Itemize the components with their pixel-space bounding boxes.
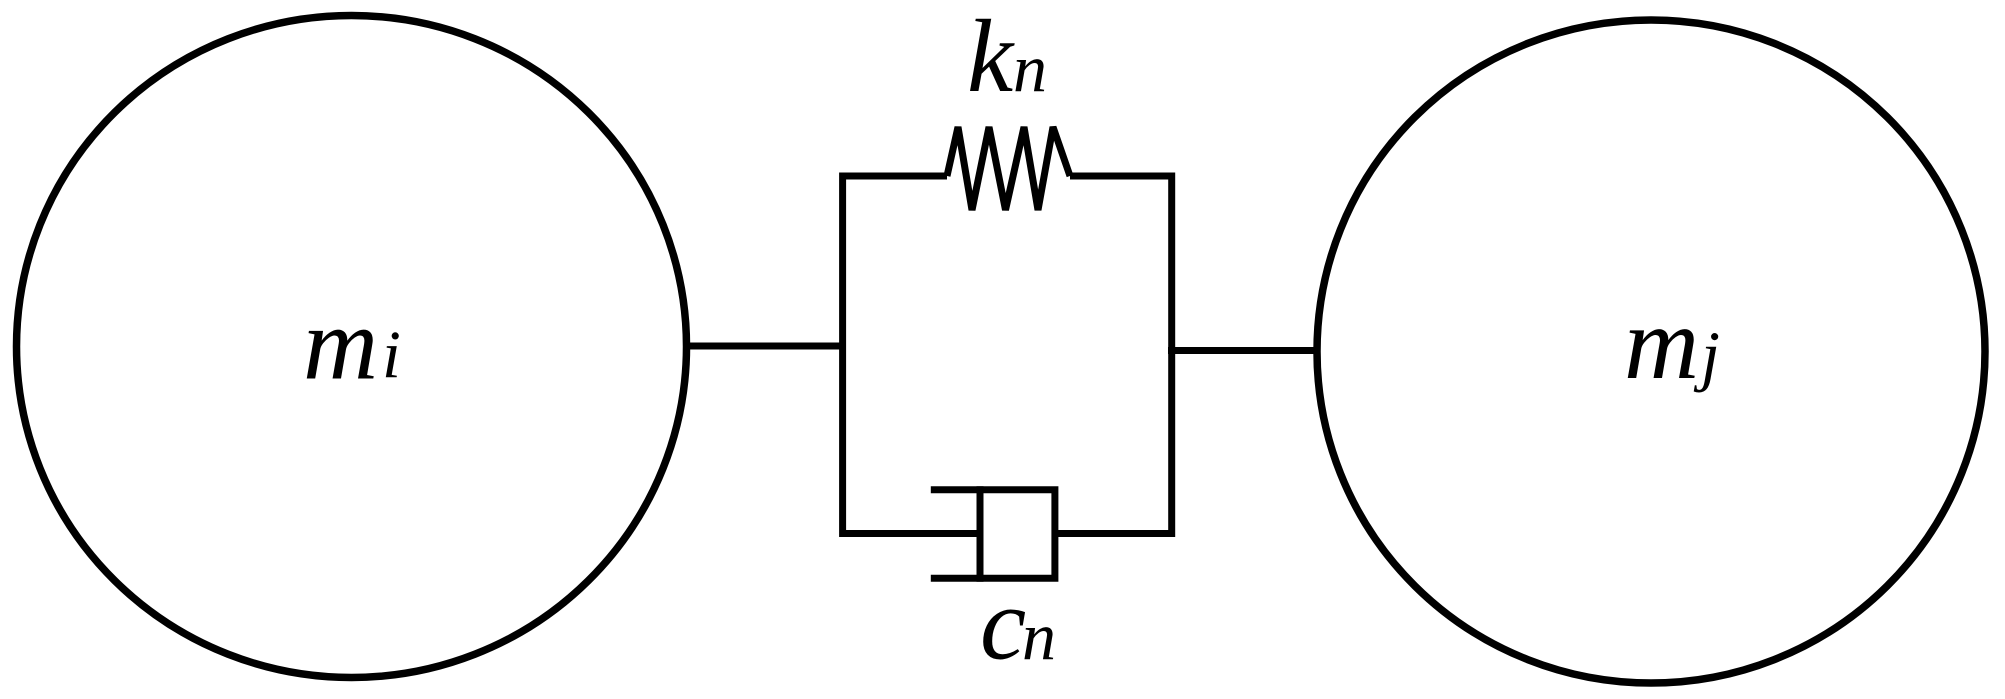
svg-text:k: k — [967, 0, 1015, 114]
svg-text:n: n — [1022, 598, 1056, 674]
svg-text:n: n — [1013, 30, 1047, 106]
wire from block to m_j — [1168, 347, 1317, 354]
spring k_n zigzag — [947, 127, 1070, 210]
block frame right: top-right segment, right side, bottom-right segment — [1055, 176, 1172, 534]
mass m_i circle — [17, 16, 687, 678]
damper piston plate — [977, 486, 984, 582]
mass m_j circle — [1317, 20, 1985, 683]
svg-text:m: m — [1624, 286, 1699, 401]
svg-text:i: i — [382, 317, 401, 393]
wire from m_i to block — [687, 343, 846, 350]
svg-text:m: m — [303, 287, 378, 402]
svg-text:c: c — [980, 567, 1026, 682]
damper c_n cylinder — [931, 490, 1055, 579]
block frame left: top-left segment, left side, bottom-left segment — [843, 176, 980, 534]
